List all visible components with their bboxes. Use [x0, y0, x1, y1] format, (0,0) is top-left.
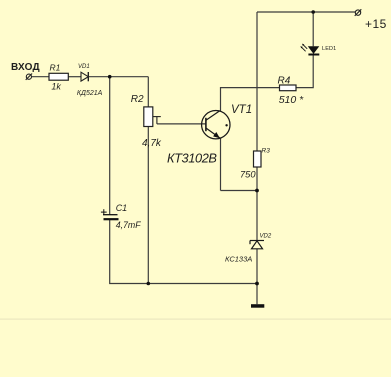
wire top rail	[257, 11, 355, 13]
terminal +15	[355, 9, 362, 16]
resistor R2 (with tap)	[144, 107, 153, 127]
svg-text:4,7mF: 4,7mF	[116, 220, 142, 230]
wire C1 branch down	[109, 77, 111, 215]
junction top rail LED	[311, 10, 315, 14]
svg-text:VD2: VD2	[260, 234, 272, 240]
diode VD1	[81, 72, 88, 81]
svg-text:КТ3102В: КТ3102В	[167, 151, 217, 166]
wire input to R1	[32, 76, 49, 78]
wire C1 to bottom rail corner	[110, 219, 257, 283]
svg-text:C1: C1	[116, 203, 128, 213]
wire LED top	[312, 12, 314, 46]
svg-text:R4: R4	[278, 75, 291, 86]
svg-text:R3: R3	[262, 147, 271, 154]
svg-text:LED1: LED1	[322, 46, 336, 52]
input terminal	[26, 74, 32, 80]
ground	[251, 304, 264, 308]
wire R3 to junction	[256, 167, 258, 191]
wire R2 top vertical	[147, 77, 149, 107]
junction emitter node	[255, 189, 259, 193]
capacitor C1	[101, 209, 119, 219]
wire emitter down	[220, 138, 222, 191]
transistor VT1	[202, 111, 230, 139]
LED LED1	[300, 44, 319, 55]
wire base from tap to transistor	[157, 123, 206, 125]
svg-text:R2: R2	[131, 94, 144, 105]
resistor R4	[280, 85, 297, 91]
resistor R1	[49, 73, 68, 80]
wire junction to VD2	[256, 191, 258, 241]
svg-text:КД521А: КД521А	[77, 90, 103, 97]
faint scan line	[0, 319, 391, 320]
svg-text:1k: 1k	[51, 81, 61, 91]
svg-text:VT1: VT1	[231, 104, 252, 116]
wire collector up and right to R4	[221, 88, 280, 112]
resistor R3	[254, 151, 262, 167]
svg-text:VD1: VD1	[78, 64, 90, 70]
svg-text:4,7k: 4,7k	[142, 138, 162, 149]
junction R2 bottom rail	[147, 282, 151, 286]
wire R4 right to LED bottom	[296, 55, 313, 88]
wire VD2 to lower junction	[256, 249, 258, 284]
wire to ground	[256, 284, 258, 305]
wire R1 to VD1	[68, 76, 81, 78]
svg-text:510 *: 510 *	[279, 94, 304, 106]
junction input node	[108, 75, 112, 79]
svg-text:750: 750	[240, 169, 256, 179]
svg-text:R1: R1	[50, 62, 61, 72]
wire +15 column down to R3	[256, 12, 258, 151]
R2 tap	[153, 117, 161, 124]
wire R2 bottom to rail	[147, 127, 149, 284]
wire VD1 to R2 top corner	[89, 76, 149, 78]
zener VD2	[250, 241, 264, 249]
junction ground node	[255, 282, 259, 286]
svg-text:КС133А: КС133А	[225, 255, 252, 264]
wire emitter to junction	[221, 190, 258, 192]
svg-text:ВХОД: ВХОД	[11, 62, 40, 73]
svg-text:+15: +15	[365, 17, 387, 31]
